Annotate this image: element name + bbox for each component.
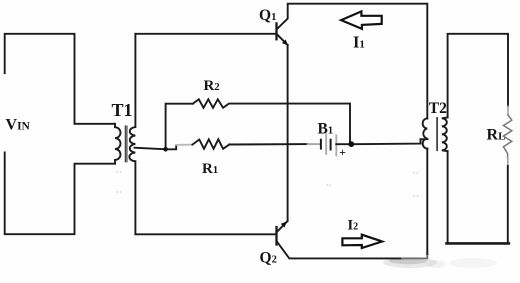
svg-text:R1: R1: [202, 161, 218, 177]
svg-text:Q1: Q1: [259, 7, 276, 24]
svg-text:R2: R2: [204, 78, 220, 94]
svg-text:T1: T1: [112, 100, 133, 120]
svg-text:Q2: Q2: [260, 250, 277, 267]
svg-text:+: +: [339, 147, 346, 159]
svg-text:I2: I2: [348, 218, 359, 234]
svg-text:VIN: VIN: [6, 116, 31, 133]
svg-text:T2: T2: [429, 100, 447, 117]
svg-text:I1: I1: [353, 33, 365, 52]
svg-text:B1: B1: [318, 121, 334, 138]
svg-text:RL: RL: [487, 126, 506, 143]
